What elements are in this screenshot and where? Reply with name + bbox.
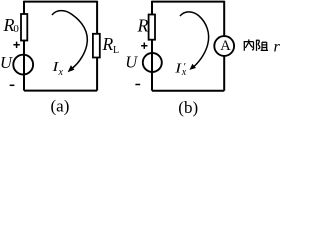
svg-text:x: x (181, 67, 187, 78)
svg-text:R: R (137, 16, 149, 36)
svg-text:x: x (58, 67, 64, 78)
svg-text:r: r (274, 38, 281, 55)
svg-text:U: U (0, 53, 13, 72)
svg-text:A: A (220, 38, 231, 54)
svg-text:U: U (125, 53, 138, 72)
svg-text:0: 0 (13, 23, 19, 35)
svg-text:L: L (113, 45, 119, 56)
svg-text:R: R (102, 34, 114, 54)
svg-text:(b): (b) (178, 98, 198, 117)
svg-text:(a): (a) (51, 97, 70, 116)
